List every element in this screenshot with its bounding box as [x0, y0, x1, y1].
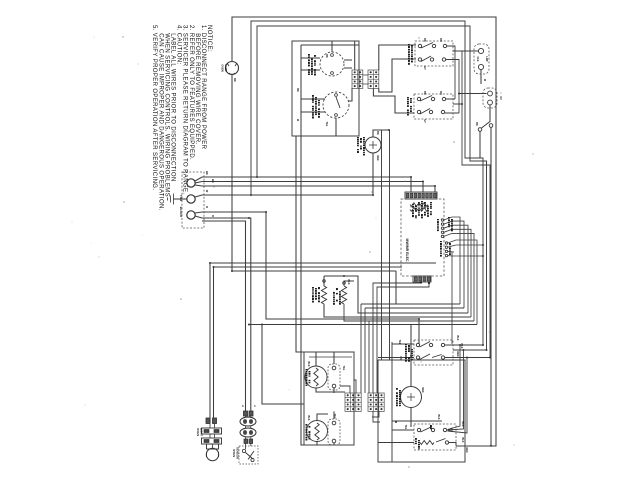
wire W1 from N to cooling fan	[195, 195, 373, 197]
connector CN2	[368, 70, 379, 88]
svg-text:BK: BK	[475, 122, 478, 126]
door lock motor M1	[320, 52, 344, 76]
oven switch top S6	[414, 340, 453, 365]
wire CN1-CN2 bridge	[363, 75, 368, 84]
convection motor M3	[401, 325, 422, 428]
door switch S4	[478, 122, 493, 132]
transformer T1	[410, 203, 428, 212]
svg-text:3. SERVICER PLEASE RETURN DIAG: 3. SERVICER PLEASE RETURN DIAGRAM TO RAN…	[182, 25, 188, 194]
wire inner vertical	[391, 342, 393, 462]
clock top connector P1	[405, 192, 437, 199]
wire H3 riser	[395, 271, 397, 304]
svg-text:BK: BK	[423, 38, 426, 42]
wire inner top line	[309, 356, 352, 358]
wire switch leads	[301, 88, 352, 136]
wire oven light drop left	[209, 263, 211, 423]
wire CL1 leads	[462, 51, 481, 84]
wire bus B5	[249, 324, 477, 326]
wire fan riser 1	[381, 130, 383, 360]
wire S6-S7 drop 2	[448, 350, 464, 430]
bake unit right box	[378, 360, 465, 462]
svg-text:YEL: YEL	[404, 425, 407, 430]
wire CN2 to lock switch upper	[379, 45, 416, 92]
label control text	[412, 204, 414, 217]
wire R3 to oven sensor	[202, 221, 246, 411]
label door lock motor	[308, 54, 310, 75]
clock bottom connector P2	[413, 276, 431, 282]
terminal N	[187, 195, 195, 203]
svg-text:BLK: BLK	[307, 416, 310, 421]
lock switch lower S5	[414, 94, 453, 119]
svg-text:5. VERIFY PROPER OPERATION AFT: 5. VERIFY PROPER OPERATION AFTER SERVICI…	[151, 25, 157, 190]
wire S3 leads	[458, 94, 490, 123]
clock lamp CL1	[474, 44, 489, 74]
label lock switch lower	[407, 97, 409, 116]
wire P2 drop 1	[373, 282, 421, 393]
svg-text:OVEN: OVEN	[221, 64, 225, 71]
svg-text:BK: BK	[205, 171, 209, 175]
svg-text:R: R	[211, 215, 215, 217]
svg-text:RED: RED	[376, 155, 379, 160]
svg-text:MW/MR ELEC: MW/MR ELEC	[405, 239, 409, 262]
wire sensor jumpers	[246, 416, 251, 449]
wire BK1 from L1 to clock pin	[195, 177, 411, 192]
wire P2 drop 2	[377, 282, 429, 393]
svg-text:BK: BK	[423, 91, 426, 95]
wire top outer loop	[232, 17, 496, 446]
wire bus B3 loop	[324, 276, 468, 313]
oven lamp switch S3	[483, 88, 497, 108]
label broil res	[312, 287, 314, 303]
wire fan top lead	[373, 130, 390, 137]
door lock switch S1	[323, 92, 349, 118]
wire BK2 from L1	[195, 182, 423, 193]
svg-text:BU: BU	[439, 91, 442, 95]
ground	[168, 194, 188, 205]
label door lock switch	[312, 95, 314, 119]
svg-text:BLK: BLK	[437, 415, 440, 420]
wire light jumper	[210, 424, 215, 449]
limiter L1	[328, 352, 340, 393]
label lock switch upper	[408, 44, 410, 65]
bake resistor R11	[341, 281, 370, 321]
svg-text:OVEN: OVEN	[196, 428, 200, 436]
label cooling fan	[357, 137, 359, 153]
wire H2 bus	[214, 266, 403, 268]
svg-text:BLK: BLK	[307, 362, 310, 367]
svg-text:YEL: YEL	[325, 122, 328, 127]
svg-text:BK: BK	[325, 54, 328, 58]
wire bus B2	[365, 308, 464, 393]
wire motor leads	[301, 41, 352, 70]
label smudges S6	[405, 344, 407, 362]
wire S4 leads	[480, 127, 491, 445]
door lock assembly box	[292, 41, 359, 136]
svg-text:BU: BU	[439, 38, 442, 42]
svg-text:BK: BK	[296, 88, 299, 92]
wire fan riser 2	[389, 130, 391, 360]
wire lamp A1 lower lead	[232, 75, 396, 271]
svg-text:2. REFER ONLY TO FEATURES EQUI: 2. REFER ONLY TO FEATURES EQUIPPED.	[188, 25, 194, 160]
wire S6-S7 drop 1	[448, 345, 461, 430]
wire R2 from L2 to oven sensor	[195, 216, 251, 411]
oven lamp A1 top	[226, 62, 239, 75]
scan speckles	[72, 36, 534, 467]
wire S7 right leads	[449, 443, 456, 446]
label smudges S7	[0, 0, 1, 1]
svg-text:YEL: YEL	[333, 414, 336, 419]
wire left riser	[296, 136, 304, 352]
svg-text:1. DISCONNECT RANGE FROM POWER: 1. DISCONNECT RANGE FROM POWER	[200, 25, 206, 150]
wire merge arrowheads	[448, 428, 452, 432]
relay K1 pin fan upper	[441, 217, 474, 321]
svg-text:GY: GY	[423, 119, 426, 123]
wire bus B6 sensor drop	[262, 325, 304, 405]
surface element E1	[305, 352, 345, 392]
svg-text:Y/R: Y/R	[399, 356, 402, 360]
svg-text:CLK: CLK	[476, 57, 479, 62]
svg-text:4. CAUTION:: 4. CAUTION:	[176, 25, 182, 65]
P1 pins	[406, 193, 436, 198]
wire CN2 lower branch	[373, 88, 414, 113]
wire fan bottom lead	[372, 153, 374, 195]
svg-text:BLOCK: BLOCK	[179, 207, 183, 218]
relay K2 pin fan lower	[445, 240, 483, 344]
label bake res	[333, 292, 335, 305]
svg-text:TRM: TRM	[179, 195, 183, 202]
svg-text:LAMP: LAMP	[224, 64, 228, 72]
terminal block TB1	[182, 172, 204, 228]
svg-text:R: R	[205, 206, 209, 208]
notice text block	[151, 25, 212, 211]
wire S6-S7 drop 3	[448, 358, 468, 434]
wire W2 riser to top bus	[251, 21, 483, 345]
surface element E2	[307, 414, 329, 445]
label conv motor	[396, 388, 398, 406]
svg-text:BK: BK	[376, 131, 379, 135]
svg-text:WHEN SERVICING CONTROLS. WIRIN: WHEN SERVICING CONTROLS. WIRING PROBLEMS	[163, 25, 169, 197]
label wire colors	[448, 217, 450, 227]
svg-text:RED: RED	[421, 387, 424, 392]
oven light assembly DS1	[202, 418, 222, 461]
svg-text:BLK: BLK	[347, 280, 350, 285]
wire H1 bus	[210, 262, 436, 264]
wire top inner loop	[257, 26, 487, 350]
svg-text:BEFORE REMOVING WIRE COVER.: BEFORE REMOVING WIRE COVER.	[194, 25, 200, 144]
wire bus B1	[361, 304, 460, 393]
wire bus B4	[382, 316, 472, 318]
connector CN3	[345, 393, 361, 411]
wire S2 outputs	[446, 46, 490, 358]
wire S7 left leads	[378, 430, 414, 443]
wire BK3 from L1	[195, 185, 435, 192]
wire CN1 riser	[354, 41, 356, 70]
connector CN4	[368, 393, 384, 411]
svg-text:RED: RED	[465, 447, 468, 452]
svg-text:BK: BK	[211, 179, 215, 183]
svg-text:YEL: YEL	[342, 366, 345, 371]
cooling fan motor M2	[365, 137, 381, 153]
svg-text:NOTICE:: NOTICE:	[206, 25, 212, 52]
surface unit left box	[304, 352, 354, 445]
svg-text:OVEN: OVEN	[232, 449, 236, 457]
wire S6 left leads	[378, 344, 414, 358]
terminal L2	[187, 211, 195, 219]
svg-text:GY: GY	[423, 66, 426, 70]
broil resistor R10	[321, 276, 381, 317]
lock switch upper S2	[415, 41, 453, 66]
wire CN4 tails	[372, 411, 380, 422]
svg-text:LABEL ALL WIRES PRIOR TO DISCO: LABEL ALL WIRES PRIOR TO DISCONNECTION	[170, 25, 176, 182]
connector CN1	[352, 70, 363, 88]
svg-text:CAN CAUSE IMPROPER AND DANGERO: CAN CAUSE IMPROPER AND DANGEROUS OPERATI…	[157, 25, 163, 211]
svg-text:LIGHT: LIGHT	[200, 428, 204, 437]
wire inner box line	[301, 45, 359, 445]
wire bus B7	[369, 321, 474, 393]
wire CN3 risers	[340, 380, 356, 393]
limiter L2	[328, 411, 340, 445]
svg-text:RED: RED	[456, 351, 459, 356]
wire oven light drop right	[213, 267, 215, 423]
oven switch bottom rows S7	[414, 424, 456, 450]
svg-text:BLK: BLK	[456, 336, 459, 341]
wire S6 right leads	[445, 345, 490, 358]
svg-text:LMP: LMP	[485, 56, 488, 61]
svg-text:SENSOR: SENSOR	[236, 447, 240, 459]
oven sensor RT1	[239, 411, 258, 464]
wire motor link	[392, 420, 442, 422]
electronic clock control A2 box	[401, 199, 444, 276]
svg-text:OV: OV	[499, 96, 502, 100]
wire R1 from L2 via right bus	[195, 212, 419, 344]
wire S5 outputs	[445, 99, 462, 113]
terminal L1	[187, 179, 195, 187]
svg-text:BLK: BLK	[461, 422, 464, 427]
svg-text:BLK: BLK	[461, 438, 464, 443]
